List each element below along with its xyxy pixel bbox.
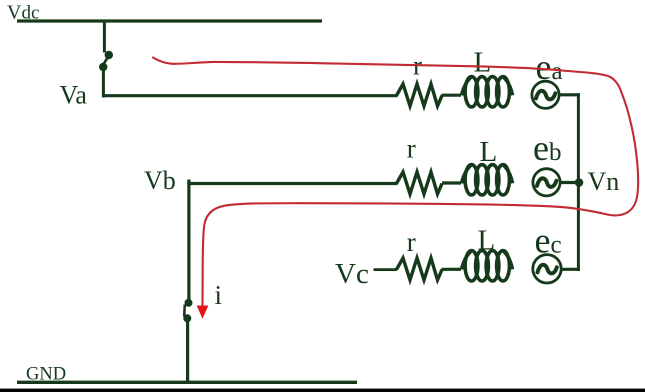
vertical wire from Vb down to switch S2 bbox=[187, 180, 190, 302]
inductor L (phase a) bbox=[462, 77, 513, 107]
svg-text:L: L bbox=[474, 47, 492, 79]
AC source ea (phase a) bbox=[532, 81, 559, 108]
wire Va row (phase a) bbox=[103, 94, 398, 97]
wire resistor to inductor (phase a) bbox=[442, 94, 462, 97]
wire from Vdc bus down to switch S1 bbox=[103, 21, 106, 53]
inductor L (phase b) bbox=[462, 165, 513, 195]
AC source ec (phase c) bbox=[533, 255, 561, 283]
svg-text:Va: Va bbox=[60, 81, 88, 110]
inductor L (phase c) bbox=[462, 251, 513, 281]
wire from switch S1 to node Va bbox=[102, 70, 105, 98]
svg-text:L: L bbox=[480, 136, 498, 168]
switch S1 (upper) bbox=[99, 51, 113, 71]
svg-text:Vc: Vc bbox=[335, 258, 369, 290]
right vertical bus wire to node Vn bbox=[577, 93, 580, 271]
red current arrowhead bbox=[197, 306, 209, 319]
wire Vb row (phase b) bbox=[187, 182, 397, 185]
svg-text:L: L bbox=[478, 225, 496, 257]
wire source ec to right bus bbox=[562, 268, 581, 271]
svg-text:r: r bbox=[407, 227, 416, 257]
svg-text:r: r bbox=[407, 133, 416, 163]
AC source eb (phase b) bbox=[533, 169, 560, 196]
resistor r (phase a) bbox=[397, 84, 443, 106]
wire source ea to right bus bbox=[559, 93, 580, 96]
resistor r (phase b) bbox=[397, 172, 443, 194]
wire resistor to inductor (phase c) bbox=[442, 268, 462, 271]
svg-text:Vn: Vn bbox=[588, 167, 620, 196]
red current path annotation i bbox=[153, 58, 638, 307]
bottom border line bbox=[0, 389, 645, 392]
GND bus wire bbox=[17, 381, 357, 384]
wire from switch S2 to GND bus bbox=[186, 321, 189, 383]
wire source eb to node Vn bbox=[560, 181, 580, 184]
junction dot node Vn bbox=[575, 178, 584, 187]
wire Vc row (phase c) bbox=[374, 268, 398, 271]
switch S2 (lower) bbox=[183, 299, 192, 323]
wire resistor to inductor (phase b) bbox=[442, 181, 461, 184]
svg-text:Vb: Vb bbox=[144, 166, 176, 195]
Vdc bus wire bbox=[17, 19, 322, 22]
resistor r (phase c) bbox=[397, 258, 443, 280]
svg-text:i: i bbox=[215, 280, 223, 310]
